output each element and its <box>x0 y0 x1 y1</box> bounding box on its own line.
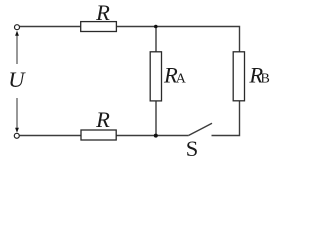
svg-text:U: U <box>8 67 26 92</box>
svg-text:S: S <box>186 136 199 161</box>
svg-text:R: R <box>95 0 110 25</box>
svg-text:R: R <box>95 107 110 132</box>
